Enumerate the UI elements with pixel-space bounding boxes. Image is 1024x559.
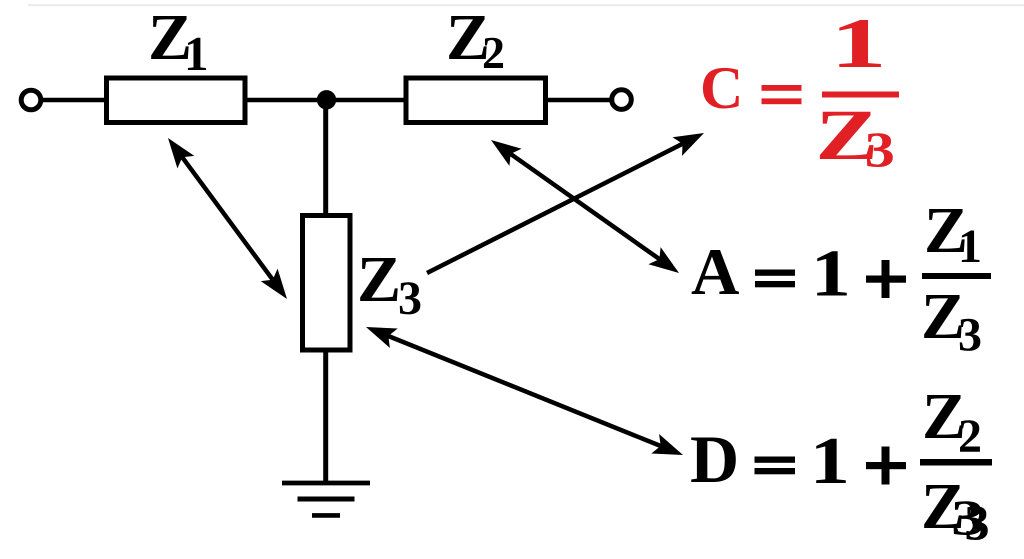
- ground: [282, 483, 370, 515]
- svg-text:3: 3: [398, 272, 422, 325]
- svg-text:2: 2: [958, 410, 982, 463]
- wire: node down to Z3: [323, 100, 328, 215]
- wire: Z1 to Z2 through node: [244, 98, 407, 103]
- wire: input terminal to Z1: [41, 98, 106, 103]
- formula C = 1/Z3 (red): [700, 5, 899, 178]
- arrow: double-headed between Z2 and formula A: [491, 140, 679, 273]
- wire: Z2 to output terminal: [545, 98, 612, 103]
- svg-text:1: 1: [811, 237, 851, 311]
- svg-text:1: 1: [184, 26, 209, 81]
- svg-text:3: 3: [958, 309, 982, 362]
- svg-text:1: 1: [810, 424, 850, 498]
- formula A = 1 + Z1/Z3: [691, 194, 991, 362]
- wire: Z3 down to ground: [323, 350, 328, 483]
- svg-text:3: 3: [865, 123, 895, 178]
- label Z1: [148, 1, 209, 81]
- svg-text:A: A: [691, 235, 739, 309]
- resistor Z2: [406, 78, 546, 123]
- svg-text:C: C: [700, 55, 743, 121]
- svg-text:1: 1: [830, 5, 886, 83]
- svg-text:1: 1: [958, 220, 982, 273]
- svg-text:Z: Z: [357, 243, 401, 316]
- formula D = 1 + Z2/Z3: [690, 380, 992, 550]
- faint top edge line: [28, 4, 1024, 6]
- svg-text:3: 3: [951, 489, 985, 545]
- arrow: from Z3 label to formula C: [427, 133, 704, 273]
- svg-text:2: 2: [482, 27, 505, 78]
- node: T junction: [317, 90, 336, 109]
- resistor Z3: [303, 216, 351, 351]
- input terminal (left port): [21, 90, 41, 110]
- svg-text:D: D: [690, 421, 739, 497]
- resistor Z1: [107, 78, 246, 123]
- label Z3: [357, 243, 422, 325]
- arrow: double-headed between Z3 and formula D: [366, 327, 683, 455]
- label Z2: [446, 1, 505, 78]
- arrow: double-headed between Z1 and Z3: [168, 138, 287, 299]
- output terminal (right port): [612, 90, 632, 110]
